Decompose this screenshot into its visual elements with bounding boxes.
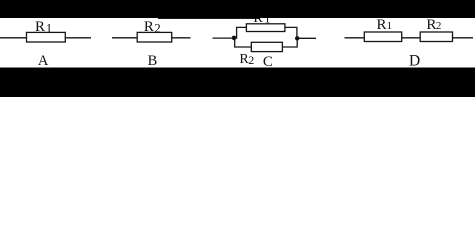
resistor R1 (option D) [364,32,401,42]
top black bar lower bulge [158,17,260,20]
svg-text:R: R [35,19,45,35]
wire C lower-left branch [235,38,252,47]
node junction left (option C) [232,36,237,41]
wire D middle [402,37,421,39]
node junction right (option C) [295,36,299,40]
svg-text:1: 1 [387,20,393,32]
resistor R2 (option B) [137,32,172,42]
wire C lower-right branch [282,39,297,47]
wire B left [112,37,137,39]
resistor R2 (option D) [420,32,452,42]
top black bar [0,0,475,18]
wire C upper-right branch [285,27,297,38]
resistor R1 (option C, top branch) [246,24,285,32]
svg-text:2: 2 [248,53,254,67]
wire A left [0,37,27,39]
wire A right [65,37,91,39]
resistor R1 (option A) [27,32,66,42]
bottom black bar [0,68,475,98]
svg-text:1: 1 [46,21,53,36]
svg-text:R: R [144,19,154,35]
wire B right [172,37,191,39]
wire C upper-left branch [237,27,247,38]
svg-text:B: B [148,53,158,69]
svg-text:R: R [377,17,387,33]
svg-text:2: 2 [436,20,442,32]
wire C right [297,37,316,39]
svg-text:C: C [263,54,273,70]
wire C left [213,37,235,39]
wire D right [453,37,474,39]
resistor R2 (option C, bottom branch) [251,42,282,51]
svg-text:D: D [409,53,420,70]
svg-text:A: A [38,53,49,69]
svg-text:2: 2 [154,21,161,36]
wire D left [345,37,365,39]
